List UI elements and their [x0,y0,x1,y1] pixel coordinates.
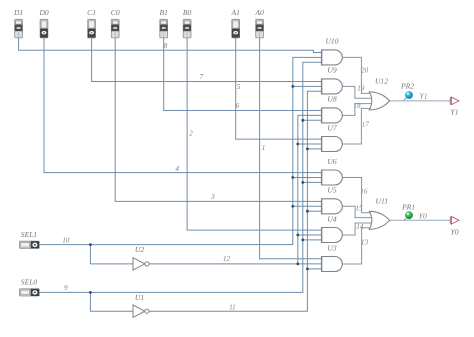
and-gate U3 [322,257,343,272]
svg-text:D1: D1 [13,8,23,17]
wire net 3 (C0 data) to U5 input 1 [115,38,321,201]
junction net12 at U7 input 2 [296,143,299,146]
wire net 12 stub to U4 input 2 [298,234,322,236]
wire net 2 (B0 data) to U4 input 1 [187,38,322,230]
wire net 14 U4 output to U11 input 3 [342,223,373,235]
probe PR1 (logic high, green) [404,211,413,221]
input switch SEL0 [19,289,39,296]
input switch B1 [160,19,168,38]
input switch C0 [111,19,119,38]
input switch A1 [232,19,240,38]
wire net 9 stub to U8 input 3 [303,119,322,121]
junction net10 at U6 input 2 [291,176,294,179]
and-gate U6 [322,170,343,185]
output pin Y1 [450,97,459,105]
svg-text:U2: U2 [135,245,144,254]
wire net 9 stub to U4 input 3 [303,239,322,241]
svg-text:4: 4 [175,165,179,173]
wire net 11 SEL0* from U1 output to bus and U9 input 3 [149,91,322,311]
or-gate U12 [369,92,389,110]
svg-text:15: 15 [355,204,363,212]
svg-text:2: 2 [189,129,193,137]
svg-text:A0: A0 [254,8,264,17]
wire net 10 stub to U9 input 2 [293,85,322,87]
wire net 7 (C1 data) to U9 input 1 [92,38,322,82]
svg-text:19: 19 [357,84,365,92]
or-gate U11 [369,211,389,229]
svg-text:U7: U7 [327,123,337,132]
svg-text:5: 5 [237,83,241,91]
junction net10/U2 branch [89,243,92,246]
svg-text:U12: U12 [375,76,388,85]
and-gate U7 [322,137,343,152]
svg-text:13: 13 [361,238,369,246]
svg-text:Y1: Y1 [419,92,427,101]
svg-text:B0: B0 [183,8,192,17]
wire net 10 SEL1 from switch to bus and U10 input 2 [39,57,321,244]
not-gate U2 [133,258,149,270]
svg-text:C1: C1 [87,8,96,17]
svg-text:B1: B1 [159,8,167,17]
svg-text:SEL0: SEL0 [21,278,38,287]
junction net12 riser [296,263,299,266]
input switch C1 [88,19,96,38]
and-gate U4 [322,228,343,243]
junction net9/U1 branch [89,291,92,294]
svg-text:20: 20 [361,67,369,75]
junction net11 at U5 input 3 [306,210,309,213]
junction net9 at U4 input 3 [301,239,304,242]
wire net 13 U3 output to U11 input 4 [342,228,373,264]
and-gate U8 [322,108,343,123]
output pin Y0 [450,216,459,224]
wire net 1 (A0 data) to U3 input 1 [260,38,322,259]
wire net 12 SEL1* from U2 output to U3 input 2 [149,263,322,265]
input switch B0 [183,19,191,38]
input switch D0 [40,19,48,38]
wire net 12 stub to U7 input 2 [298,143,322,145]
wire net 16 U6 output to U11 input 1 [342,178,373,213]
svg-text:U4: U4 [327,214,336,223]
svg-text:Y0: Y0 [419,211,427,220]
wire net 10 stub to U6 input 2 [293,177,322,179]
wire net Y0 from U11 output to output pin [390,219,452,221]
wire net 9 branch down to U1 inverter input [90,292,133,311]
wire net 15 U5 output to U11 input 2 [342,206,373,217]
svg-text:U5: U5 [327,186,336,195]
svg-text:U3: U3 [327,243,336,252]
and-gate U9 [322,79,343,94]
wire net 17 U7 output to U12 input 4 [342,108,373,144]
svg-text:C0: C0 [111,8,120,17]
svg-text:3: 3 [210,193,215,201]
svg-text:7: 7 [200,73,204,81]
svg-text:SEL1: SEL1 [21,230,37,239]
input switch A0 [256,19,264,38]
svg-text:U9: U9 [327,66,336,75]
wire net 10 branch down to U2 inverter input [90,245,133,264]
wire net 5 (A1 data) to U7 input 1 [236,38,322,139]
svg-text:U6: U6 [327,157,336,166]
junction net9 at U8 input 3 [301,119,304,122]
wire net 11 stub to U3 input 3 [307,268,321,270]
svg-text:17: 17 [362,120,370,128]
svg-text:Y0: Y0 [451,228,459,237]
wire net 9 SEL0 from switch to bus and U10 input 3 [39,62,321,292]
svg-text:10: 10 [62,236,70,244]
wire net 9 stub to U6 input 3 [303,181,322,183]
svg-text:D0: D0 [38,8,48,17]
junction net9 at U6 input 3 [301,181,304,184]
svg-text:6: 6 [236,102,240,110]
svg-text:11: 11 [229,303,236,311]
svg-text:A1: A1 [230,8,239,17]
svg-text:PR1: PR1 [401,202,415,211]
junction net10 at U5 input 2 [291,205,294,208]
wire net 20 U10 output to U12 input 1 [342,57,373,93]
svg-text:14: 14 [356,223,364,231]
wire net 4 (D0 data) to U6 input 1 [44,38,322,173]
svg-text:U1: U1 [135,293,144,302]
and-gate U10 [322,50,343,65]
wire net 8 (D1 data) to U10 input 1 [19,38,322,53]
junction net12 at U4 input 2 [296,234,299,237]
wire net 18 U8 output to U12 input 3 [342,104,373,116]
svg-text:U8: U8 [327,95,336,104]
input switch D1 [15,19,23,38]
wire net 11 stub to U5 input 3 [307,210,321,212]
svg-text:Y1: Y1 [450,107,458,116]
wire net 6 (B1 data) to U8 input 1 [164,38,322,111]
svg-text:1: 1 [262,144,266,152]
svg-text:U11: U11 [376,197,389,206]
input switch SEL1 [19,241,39,248]
svg-text:9: 9 [64,284,68,292]
svg-text:18: 18 [353,102,361,110]
junction net11 at U7 input 3 [306,148,309,151]
wire net 12 riser to U8 input 2 [298,115,322,264]
svg-text:PR2: PR2 [400,81,414,90]
not-gate U1 [133,305,149,317]
svg-text:U10: U10 [325,37,338,46]
wire net 19 U9 output to U12 input 2 [342,86,373,98]
wire net 10 stub to U5 input 2 [293,205,322,207]
junction net11 at U3 input 3 [306,268,309,271]
and-gate U5 [322,199,343,214]
wire net Y1 from U12 output to output pin [390,100,452,102]
svg-text:12: 12 [223,255,231,263]
wire net 11 stub to U7 input 3 [307,148,321,150]
svg-text:16: 16 [360,187,368,195]
probe PR2 (logic low, blue) [404,91,413,101]
svg-text:8: 8 [164,42,168,50]
junction net10 at U9 input 2 [291,85,294,88]
